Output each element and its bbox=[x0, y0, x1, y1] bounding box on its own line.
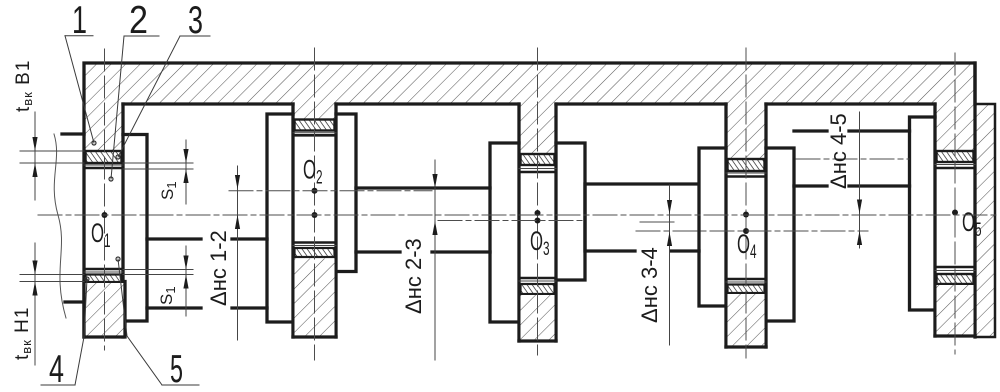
journal 5 surface top line bbox=[935, 167, 975, 170]
journal 1 bearing cap bottom edge bbox=[84, 282, 125, 338]
journal 3 lower clearance thin line bbox=[519, 280, 556, 282]
journal 3 surface top line bbox=[519, 171, 556, 174]
journal 4 dot on own axis bbox=[743, 228, 749, 234]
dimension delta-ns 2-3 line bbox=[434, 160, 436, 360]
journal 4 upper bearing shell bbox=[728, 159, 765, 171]
dimension delta-ns 3-4 line bbox=[669, 185, 671, 345]
journal 4 surface bottom line bbox=[726, 278, 766, 281]
journal 2 dot on main axis bbox=[312, 212, 318, 218]
journal 3 axis short extension at dim 3-4 bbox=[640, 221, 674, 223]
housing hatched tongue over journal 2 bbox=[293, 104, 336, 120]
shaft nose break wavy line bbox=[54, 134, 66, 318]
callout 4 leader dot bbox=[85, 277, 89, 281]
journal 4 bearing cap hatched bbox=[728, 294, 765, 346]
callout 4 shelf bbox=[41, 384, 75, 386]
journal 3 web outline bbox=[490, 143, 585, 322]
journal 5 lower bearing shell bbox=[937, 274, 974, 284]
shaft stub bay 2-3 bbox=[356, 188, 490, 252]
svg-text:Δнс 1-2: Δнс 1-2 bbox=[206, 230, 231, 306]
journal 1 lower bearing shell bbox=[86, 275, 122, 283]
callout 4 leader bbox=[75, 279, 87, 385]
dimension S1 top extension lines bbox=[123, 163, 193, 169]
dimension delta-ns 1-2 line bbox=[237, 166, 239, 340]
journal 2 upper clearance thin line bbox=[293, 132, 336, 134]
journal 1 upper clearance thin line bbox=[84, 164, 123, 166]
journal 2 upper bearing shell bbox=[295, 120, 335, 131]
journal 5 lower clearance thin line bbox=[935, 270, 975, 272]
journal 2 bearing cap hatched bbox=[295, 259, 335, 336]
journal 3 bearing cap bottom edge bbox=[519, 339, 556, 342]
callout 2 leader dot bbox=[109, 177, 113, 181]
callout 5 shelf bbox=[162, 384, 199, 386]
journal 5 bearing cap bottom edge bbox=[935, 334, 975, 337]
housing band bottom edge bay4-5 bbox=[766, 102, 935, 105]
housing right wall contour bbox=[975, 104, 995, 337]
journal 4 upper clearance thin line bbox=[726, 172, 766, 174]
journal 1 step block right bbox=[123, 135, 147, 322]
housing hatched tongue over journal 1 bbox=[84, 104, 123, 151]
dimension delta-ns 4-5 line bbox=[859, 112, 861, 248]
housing band bottom edge bay2-3 bbox=[336, 102, 519, 105]
shaft stub bay 4-5 bbox=[794, 131, 910, 186]
journal 1 centerline vertical bbox=[104, 49, 106, 350]
journal 1 upper bearing shell bbox=[86, 151, 122, 163]
journal 3 bore side walls bbox=[519, 104, 556, 341]
journal 4 bearing cap bottom edge bbox=[726, 345, 766, 348]
svg-text:Δнс 3-4: Δнс 3-4 bbox=[637, 247, 662, 323]
journal 5 surface bottom line bbox=[935, 266, 975, 269]
journal 5 bore side walls bbox=[935, 63, 975, 337]
dimension S1 top line and arrows bbox=[185, 140, 187, 204]
dimension S1 bottom line and arrows bbox=[185, 246, 187, 316]
callout 5 leader bbox=[118, 259, 162, 385]
journal 1 center dot bbox=[102, 212, 108, 218]
journal 4 axis dash-dot bbox=[636, 230, 868, 232]
journal 2 centerline vertical bbox=[314, 48, 316, 360]
journal 2 lower clearance thin line bbox=[293, 245, 336, 247]
journal 1 surface top line bbox=[84, 167, 123, 170]
journal 3 bearing cap hatched bbox=[521, 295, 555, 340]
journal 3 upper clearance thin line bbox=[519, 168, 556, 170]
journal 2 surface bottom line bbox=[293, 241, 336, 244]
callout 1 shelf bbox=[65, 35, 93, 37]
journal 3 dot on own axis bbox=[535, 218, 541, 224]
main axis dash-dot bbox=[38, 214, 997, 216]
svg-text:Δнс 2-3: Δнс 2-3 bbox=[401, 238, 426, 314]
journal 5 web outline bbox=[910, 117, 936, 310]
shaft nose left of journal 1 bbox=[62, 134, 84, 302]
callout 3 leader dot bbox=[116, 155, 120, 159]
housing band bottom edge bay3-4 bbox=[556, 102, 726, 105]
journal 3 lower bearing shell bbox=[521, 284, 555, 294]
shaft stub bay 3-4 bbox=[585, 184, 699, 251]
journal 3 axis dash-dot bbox=[438, 220, 585, 222]
dimension t_vk H1 line and arrows bbox=[34, 243, 36, 365]
callout 2 shelf bbox=[124, 35, 159, 37]
shaft stub bay 1-2 bbox=[147, 239, 267, 308]
callout 2 leader bbox=[111, 36, 124, 179]
journal 5 bearing cap hatched bbox=[937, 285, 974, 335]
journal 3 centerline vertical bbox=[537, 48, 539, 355]
journal 2 lower bearing shell bbox=[295, 248, 335, 257]
housing hatched tongue over journal 4 bbox=[726, 104, 766, 159]
callout 1 leader bbox=[65, 36, 94, 143]
bay 4-5 axis dash-dot bbox=[796, 158, 909, 160]
housing hatched tongue over journal 5 bbox=[935, 104, 975, 151]
journal 1 lower clearance thin line bbox=[84, 271, 123, 273]
bay 1-2 axis dash-dot bbox=[229, 190, 432, 192]
housing right wall hatched bbox=[975, 104, 995, 337]
dimension t_vk H1 extension lines bbox=[20, 275, 84, 282]
callout 3 shelf bbox=[180, 35, 210, 37]
journal 4 bore side walls bbox=[726, 104, 766, 347]
journal 3 dot on main axis bbox=[535, 210, 541, 216]
housing outer contour bbox=[84, 63, 975, 337]
journal 5 dot on main axis bbox=[952, 210, 958, 216]
journal 1 surface bottom line bbox=[84, 268, 123, 271]
dimension S1 bottom extension lines bbox=[123, 270, 193, 275]
journal 4 dot on main axis bbox=[743, 212, 749, 218]
journal 1 bore side walls bbox=[121, 104, 124, 337]
callout 3 leader bbox=[118, 36, 180, 157]
journal 5 upper clearance thin line bbox=[935, 164, 975, 166]
journal 4 lower clearance thin line bbox=[726, 281, 766, 283]
dimension t_vk B1 extension lines bbox=[20, 151, 84, 163]
journal 2 web outline bbox=[267, 114, 356, 322]
journal 4 lower bearing shell bbox=[728, 285, 765, 294]
journal 1 bearing cap hatched bbox=[86, 283, 124, 336]
journal 4 surface top line bbox=[726, 175, 766, 178]
callout 1 leader dot bbox=[92, 141, 96, 145]
journal 4 web outline bbox=[699, 148, 794, 321]
callout 5 leader dot bbox=[116, 257, 120, 261]
housing band bottom edge bay1-2 bbox=[123, 102, 293, 105]
journal 5 centerline vertical bbox=[954, 53, 956, 354]
journal 2 bore side walls bbox=[293, 104, 336, 337]
journal 3 surface bottom line bbox=[519, 277, 556, 280]
journal 2 surface top line bbox=[293, 134, 336, 137]
dimension t_vk B1 line and arrows bbox=[34, 112, 36, 200]
housing hatched tongue over journal 3 bbox=[519, 104, 556, 154]
journal 2 center dot on bay axis bbox=[312, 188, 318, 194]
journal 4 centerline vertical bbox=[745, 48, 747, 358]
housing top band hatched bbox=[84, 63, 975, 104]
journal 3 upper bearing shell bbox=[521, 154, 555, 165]
svg-text:Δнс 4-5: Δнс 4-5 bbox=[826, 113, 851, 189]
journal 5 upper bearing shell bbox=[937, 151, 974, 162]
journal 2 bearing cap bottom edge bbox=[293, 335, 336, 338]
